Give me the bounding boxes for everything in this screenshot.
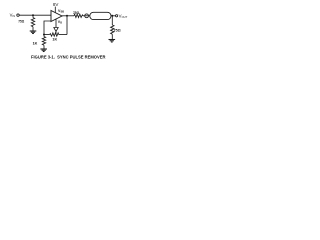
wire R5 to ground <box>111 34 113 39</box>
ground (divider) <box>40 49 47 52</box>
svg-text:FIGURE 3-1. SYNC PULSE REMOVE: FIGURE 3-1. SYNC PULSE REMOVER <box>31 55 106 60</box>
svg-text:B: B <box>60 22 62 25</box>
node VIN label <box>10 12 16 18</box>
wire feedback down <box>66 16 68 35</box>
wire node D down to R5 <box>111 16 113 25</box>
diode D1 from op-amp to feedback node <box>55 19 57 28</box>
svg-text:75Ω: 75Ω <box>73 11 79 15</box>
resistor R4 1K to ground <box>42 37 45 46</box>
wire 8V supply to op-amp <box>54 7 56 13</box>
resistor R1 75 ohm (input termination) <box>31 18 34 27</box>
wire feedback bottom <box>59 34 67 36</box>
label R4 value 1K <box>33 42 38 46</box>
wire R1 to ground <box>32 27 34 31</box>
label R1 value 75 ohm <box>18 20 24 24</box>
resistor R2 series 75 ohm <box>74 14 83 17</box>
op-amp U1 <box>51 11 62 22</box>
node A junction <box>32 14 34 16</box>
wire node A down to R1 <box>32 15 34 17</box>
terminal VOUT <box>116 15 118 17</box>
figure caption <box>31 55 106 60</box>
node B junction (output) <box>66 15 68 17</box>
label VBB node <box>58 9 64 14</box>
label R5 value 75 ohm <box>113 27 120 32</box>
svg-text:IN: IN <box>13 14 16 18</box>
wire op-amp output <box>62 15 74 17</box>
svg-text:8V: 8V <box>53 2 59 7</box>
svg-text:OUT: OUT <box>122 15 128 19</box>
supply 8V label <box>53 2 59 7</box>
ground (output termination) <box>109 40 116 43</box>
node C junction <box>43 34 45 36</box>
svg-text:BB: BB <box>61 11 65 14</box>
resistor R3 feedback 1K <box>50 33 59 36</box>
wire to VOUT terminal <box>112 15 115 17</box>
node VOUT label <box>119 13 128 19</box>
label R2 value 75 ohm <box>73 11 79 15</box>
svg-text:75Ω: 75Ω <box>18 20 24 24</box>
coax cable body <box>90 12 111 19</box>
coax connector J1 <box>85 14 89 18</box>
terminal VIN <box>17 14 19 16</box>
wire R4 to ground <box>43 45 45 49</box>
wire feedback to node C <box>44 34 50 36</box>
node D junction <box>111 15 113 17</box>
resistor R5 75 ohm termination <box>111 25 114 34</box>
svg-text:1K: 1K <box>33 42 38 46</box>
svg-text:75Ω: 75Ω <box>113 27 120 32</box>
wire node C down to R4 <box>43 35 45 37</box>
label VB node (below op-amp) <box>58 20 63 25</box>
wire node C up to inverting input <box>44 21 51 35</box>
ground (input termination) <box>30 31 37 34</box>
wire R2 to connector <box>83 15 90 17</box>
svg-text:1K: 1K <box>52 37 57 41</box>
label R3 value 1K <box>52 37 57 41</box>
wire VIN to op-amp input <box>19 14 51 16</box>
